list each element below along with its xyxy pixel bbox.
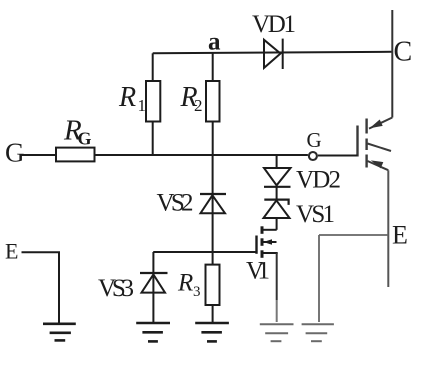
wire VS3/R3/V1-gate bus [153, 251, 256, 253]
svg-text:1: 1 [138, 96, 147, 115]
transistor V1 (MOSFET) [263, 229, 277, 231]
ground VS3 [136, 323, 170, 341]
svg-text:VS2: VS2 [157, 190, 194, 217]
resistor R1 [152, 53, 154, 81]
wire collector lead [391, 10, 393, 118]
wire emitter lead [387, 170, 389, 287]
wire top bus [153, 52, 393, 54]
wire ground return vertical [318, 235, 320, 322]
wire RG to G node (gate row) [95, 154, 308, 156]
svg-text:3: 3 [193, 284, 201, 300]
wire V1 source to ground [276, 253, 278, 300]
svg-text:E: E [5, 239, 18, 264]
svg-text:G: G [5, 138, 25, 168]
svg-text:R: R [177, 270, 193, 297]
zener VS3 [152, 252, 154, 273]
IGBT [358, 118, 393, 171]
wire gate lead [318, 155, 358, 157]
svg-text:VD2: VD2 [296, 167, 341, 194]
ground R3 [195, 323, 229, 341]
svg-text:2: 2 [194, 96, 203, 115]
ground E [43, 324, 76, 341]
svg-text:VS1: VS1 [296, 201, 335, 228]
wire VS2 to R3 [212, 213, 214, 264]
diode VD2 [276, 155, 278, 168]
node G circle [309, 152, 317, 160]
resistor R3 [206, 265, 220, 305]
diode VD1 [264, 40, 281, 68]
svg-text:V1: V1 [246, 258, 270, 285]
wire E to ground [22, 252, 60, 324]
svg-text:VD1: VD1 [252, 11, 296, 38]
svg-text:G: G [307, 128, 322, 152]
svg-text:R: R [118, 82, 136, 113]
svg-text:a: a [208, 29, 221, 56]
resistor RG [56, 148, 95, 162]
svg-text:VS3: VS3 [98, 275, 134, 302]
ground V1 [260, 324, 294, 341]
svg-text:G: G [78, 129, 92, 149]
zener VS1 [264, 200, 288, 205]
svg-text:E: E [392, 221, 408, 250]
ground emitter return [302, 324, 334, 341]
zener VS2 [212, 155, 214, 213]
wire emitter to ground return [319, 234, 388, 236]
resistor R2 [212, 53, 214, 81]
wire G to RG [22, 154, 57, 156]
svg-text:C: C [394, 37, 413, 68]
